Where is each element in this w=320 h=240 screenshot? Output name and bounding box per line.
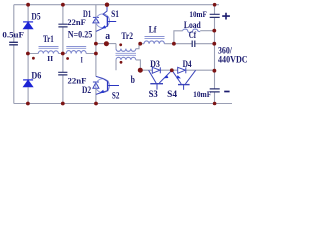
wire Lf row	[139, 43, 214, 45]
capacitor 22nF bottom	[58, 72, 67, 75]
node bottom rail 10mF	[213, 102, 217, 106]
diode D3	[152, 67, 160, 73]
node a	[104, 41, 109, 46]
inductor Lf	[144, 41, 164, 44]
svg-text:Tr2: Tr2	[121, 31, 133, 41]
plus sign	[222, 13, 230, 20]
minus sign	[224, 91, 229, 93]
transformer Tr1 winding II	[38, 51, 58, 54]
svg-text:10mF: 10mF	[189, 10, 206, 19]
svg-text:S2: S2	[112, 91, 120, 101]
resistor Load squiggle	[183, 29, 201, 32]
wire D5-D6 branch	[27, 5, 29, 104]
wire bottom rail	[14, 103, 232, 105]
node top rail D5	[26, 3, 30, 7]
phasing dot Tr1 I	[66, 57, 69, 60]
svg-text:10mF: 10mF	[193, 89, 211, 99]
wire 22nF branch	[62, 5, 64, 104]
node Tr2-Lf	[138, 42, 142, 46]
node b	[138, 68, 143, 73]
capacitor Cf	[192, 41, 195, 48]
svg-text:Lf: Lf	[149, 25, 157, 35]
svg-text:D2: D2	[82, 86, 91, 96]
transformer Tr1 winding I	[66, 51, 86, 54]
diode D1	[93, 17, 99, 23]
svg-text:Tr1: Tr1	[43, 34, 54, 44]
svg-text:S4: S4	[167, 89, 177, 99]
node Load right	[212, 29, 216, 33]
transistor S1	[96, 14, 110, 28]
svg-text:Cf: Cf	[189, 30, 197, 40]
wire left rail	[13, 5, 15, 104]
wire output right vertical	[214, 5, 216, 104]
node mid 22nF tap	[61, 52, 65, 56]
load resistor branch	[174, 31, 183, 44]
svg-text:II: II	[47, 54, 53, 63]
svg-text:D5: D5	[31, 13, 40, 23]
node rectifier out	[213, 69, 217, 73]
wire top rail	[14, 4, 219, 6]
node Cf right	[212, 42, 216, 46]
wire node-b row / rectifier row	[140, 69, 214, 71]
svg-text:a: a	[105, 30, 110, 42]
node D3-D4	[170, 68, 174, 72]
svg-text:N=0.25: N=0.25	[68, 30, 93, 40]
node top rail 10mF	[213, 3, 217, 7]
phasing dot Tr1 II	[32, 57, 35, 60]
svg-text:22nF: 22nF	[68, 75, 87, 85]
svg-text:440VDC: 440VDC	[218, 55, 248, 65]
svg-text:0.5uF: 0.5uF	[2, 29, 24, 39]
transistor S4	[172, 70, 196, 90]
svg-text:D1: D1	[83, 10, 91, 20]
node bridge leg a-row	[94, 42, 98, 46]
svg-text:b: b	[131, 75, 135, 86]
svg-text:S3: S3	[149, 89, 159, 99]
diode D2	[93, 82, 99, 88]
wire node-a row	[96, 43, 116, 45]
node bottom rail D6	[26, 102, 30, 106]
svg-text:S1: S1	[111, 10, 119, 20]
svg-text:D3: D3	[150, 59, 160, 69]
transistor S3	[149, 70, 172, 89]
node top rail 22nF	[61, 3, 65, 7]
phasing dot Tr2 top	[119, 43, 122, 46]
node bottom rail bridge	[94, 102, 98, 106]
diode D6	[23, 80, 33, 87]
node bottom rail 22nF	[61, 102, 65, 106]
capacitor 22nF top	[58, 24, 67, 27]
wire bridge mid leg	[95, 5, 97, 104]
node top rail S1	[105, 2, 109, 6]
capacitor 10mF bottom	[210, 89, 220, 92]
transistor S2	[96, 79, 110, 93]
svg-text:D6: D6	[31, 71, 41, 81]
diode D5	[23, 22, 33, 29]
wire Tr1 primary row	[28, 53, 96, 55]
node mid D5-D6	[26, 52, 30, 56]
diode D4	[178, 67, 186, 73]
svg-text:I: I	[81, 55, 83, 64]
node Lf-Load	[172, 42, 176, 46]
phasing dot Tr2 bottom	[120, 61, 123, 64]
capacitor 10mF top	[210, 14, 220, 17]
capacitor 0.5uF	[9, 42, 18, 45]
node mid bridge leg Tr1	[94, 52, 98, 56]
svg-text:D4: D4	[183, 59, 192, 69]
